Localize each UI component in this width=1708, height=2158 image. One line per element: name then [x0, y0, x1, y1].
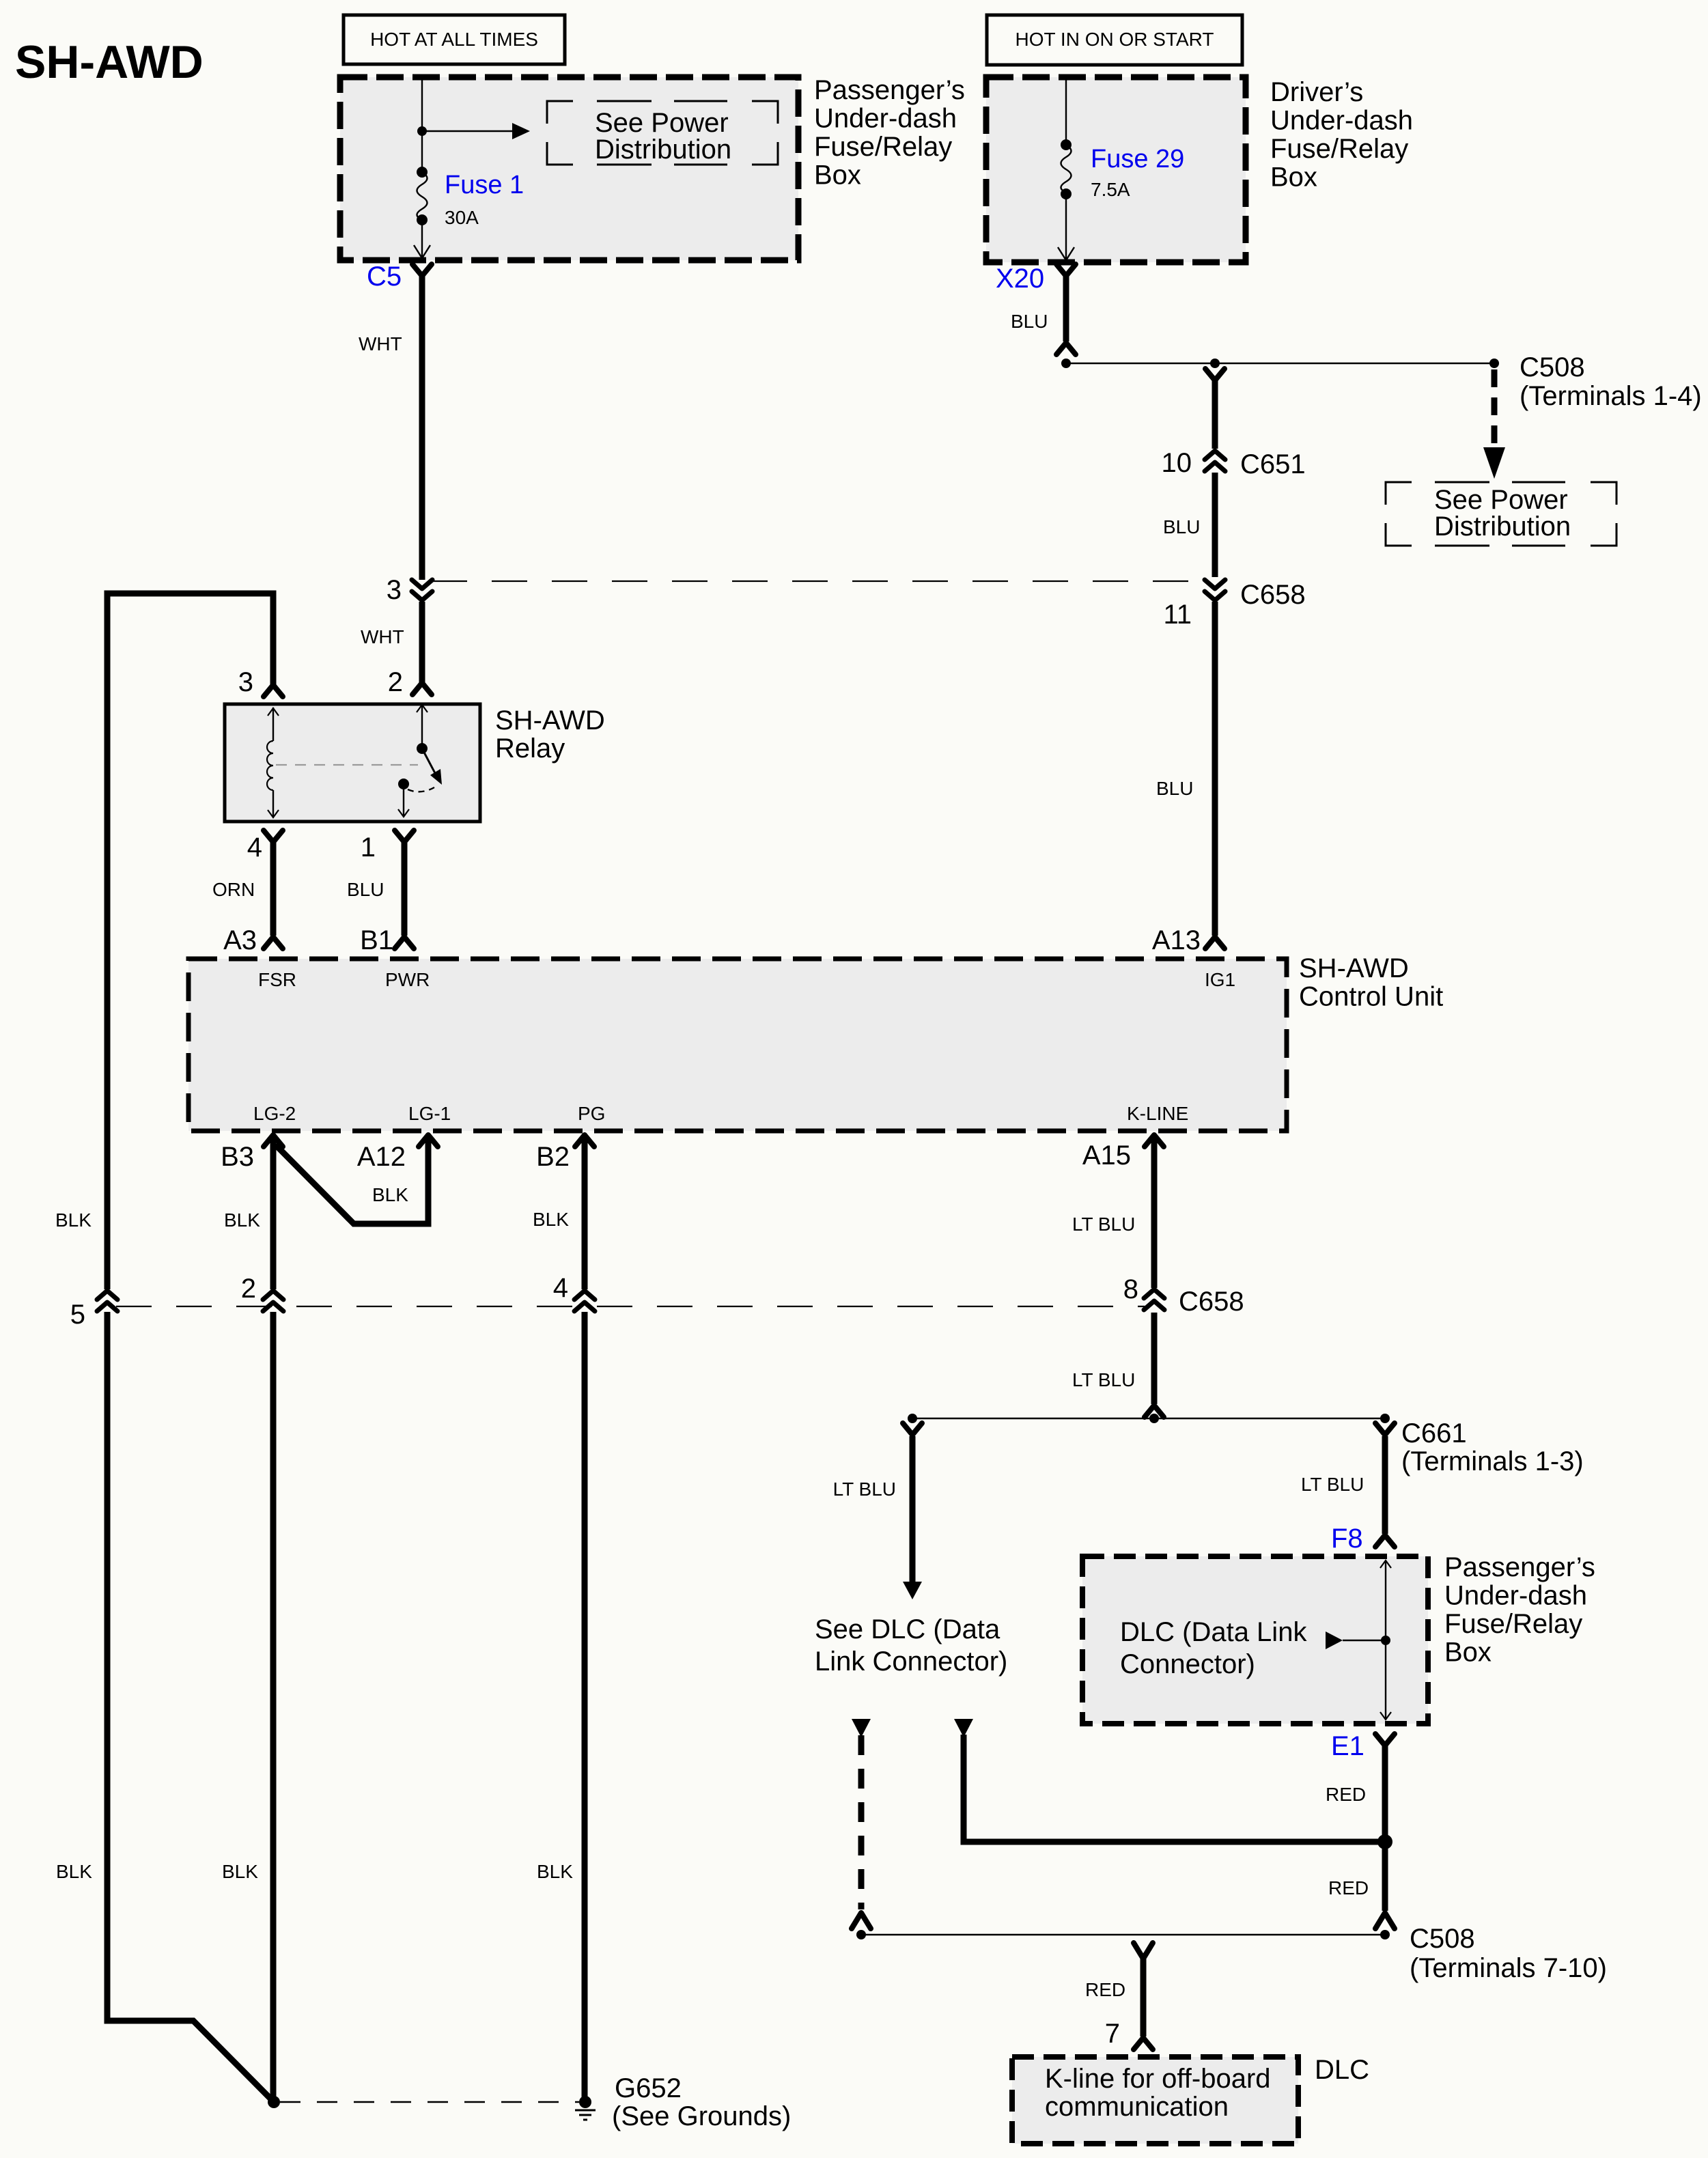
svg-text:4: 4: [553, 1273, 568, 1303]
hot at all times box: [344, 15, 565, 64]
svg-text:LG-2: LG-2: [253, 1103, 296, 1124]
arrow from DLC dashed branch: [852, 1719, 871, 1737]
svg-text:DLC (Data Link: DLC (Data Link: [1120, 1617, 1307, 1647]
svg-text:BLU: BLU: [1011, 311, 1048, 332]
wire WHT to relay pin 2: [419, 602, 425, 683]
svg-text:BLK: BLK: [222, 1861, 258, 1882]
wire fuse to C5 with arrow: [421, 220, 423, 257]
relay internal dashed link: [276, 764, 418, 766]
DLC k-line box: [1012, 2057, 1298, 2144]
node C508 row right: [1380, 1930, 1390, 1939]
svg-text:A12: A12: [357, 1142, 406, 1172]
connector relay pin 3: [264, 685, 283, 697]
hot in on or start box: [987, 15, 1242, 65]
svg-text:BLU: BLU: [347, 879, 384, 900]
svg-text:Fuse/Relay: Fuse/Relay: [1444, 1609, 1582, 1639]
connector relay pin 2: [412, 683, 432, 695]
wire LT BLU A15 down: [1151, 1136, 1158, 1288]
wire arrow to see power distribution: [422, 130, 512, 132]
svg-text:SH-AWD: SH-AWD: [495, 705, 605, 735]
svg-text:FSR: FSR: [258, 969, 296, 990]
svg-text:See Power: See Power: [1434, 485, 1568, 515]
wire RED pin 7: [1140, 1959, 1147, 2036]
svg-text:8: 8: [1123, 1274, 1138, 1304]
connector fork left branch: [903, 1423, 922, 1435]
svg-text:BLK: BLK: [372, 1184, 408, 1205]
wire BLK B3 lower: [270, 1312, 277, 2102]
svg-text:Box: Box: [1444, 1638, 1492, 1668]
svg-text:BLK: BLK: [224, 1209, 260, 1231]
connector fork below mid node: [1205, 369, 1224, 380]
relay switch moving contact: [422, 748, 436, 774]
svg-text:4: 4: [247, 832, 262, 863]
svg-text:Under-dash: Under-dash: [1444, 1581, 1587, 1611]
ground symbol G652: [575, 2110, 596, 2120]
wire LT BLU right branch: [1382, 1436, 1388, 1534]
svg-text:Relay: Relay: [495, 733, 565, 763]
svg-text:communication: communication: [1045, 2092, 1229, 2122]
connector C658 pin 3: [412, 580, 432, 600]
connector relay pin 4: [264, 830, 283, 842]
node k-line mid: [1149, 1414, 1159, 1423]
svg-text:X20: X20: [996, 264, 1044, 294]
svg-text:PG: PG: [578, 1103, 605, 1124]
svg-text:BLK: BLK: [56, 1861, 92, 1882]
wire thin k-line junction row: [912, 1418, 1385, 1419]
svg-text:(Terminals 7-10): (Terminals 7-10): [1410, 1953, 1607, 1983]
wire LT BLU below C658: [1151, 1313, 1158, 1404]
fuse F29 bottom node: [1061, 188, 1072, 199]
svg-text:7.5A: 7.5A: [1091, 179, 1130, 200]
wire dashed arrow to power distribution: [1492, 369, 1498, 447]
svg-text:(Terminals 1-3): (Terminals 1-3): [1401, 1446, 1584, 1476]
svg-text:Distribution: Distribution: [1434, 512, 1571, 542]
wire ORN pin4 to A3: [270, 842, 277, 936]
connector C651 pin 10: [1205, 451, 1225, 471]
connector fork right branch: [1375, 1423, 1395, 1435]
connector X20: [1056, 264, 1076, 276]
wire BLK B3 down: [270, 1136, 277, 1289]
svg-text:WHT: WHT: [359, 333, 402, 354]
driver under-dash fuse/relay box: [986, 77, 1246, 262]
wire thin C508 row: [861, 1934, 1385, 1935]
relay switch contact node: [398, 779, 409, 789]
wire inside driver box: [1065, 77, 1067, 145]
svg-text:WHT: WHT: [361, 626, 404, 647]
svg-text:Connector): Connector): [1120, 1649, 1255, 1679]
fuse F1 top node: [417, 167, 428, 178]
svg-text:B1: B1: [360, 925, 393, 955]
svg-text:DLC: DLC: [1315, 2055, 1369, 2085]
wire WHT C5 down: [419, 276, 425, 580]
svg-text:Fuse/Relay: Fuse/Relay: [814, 132, 952, 162]
connector fork dashed branch: [852, 1913, 871, 1929]
svg-text:LT BLU: LT BLU: [1301, 1474, 1364, 1495]
svg-text:BLU: BLU: [1156, 778, 1193, 799]
connector C658 pin 5: [97, 1291, 117, 1311]
svg-text:C658: C658: [1179, 1287, 1244, 1317]
arrow from DLC solid branch: [954, 1719, 973, 1737]
wire LT BLU left branch: [910, 1436, 916, 1583]
node X20 branch: [1061, 359, 1071, 368]
node RED junction: [1377, 1834, 1392, 1849]
fuse F1 bottom node: [417, 214, 428, 225]
svg-text:(See Grounds): (See Grounds): [612, 2101, 791, 2131]
wire BLU down: [1212, 381, 1218, 449]
wire dashed connector line C658: [432, 580, 1205, 582]
wire BLK left column lower: [107, 1312, 274, 2102]
svg-text:BLK: BLK: [55, 1209, 92, 1231]
svg-text:SH-AWD: SH-AWD: [1299, 953, 1409, 983]
svg-text:SH-AWD: SH-AWD: [15, 36, 204, 88]
DLC internal pointer: [1343, 1640, 1386, 1641]
wire inside passenger box: [421, 77, 423, 172]
svg-text:A13: A13: [1152, 925, 1201, 955]
svg-text:K-line for off-board: K-line for off-board: [1045, 2064, 1271, 2094]
svg-text:PWR: PWR: [385, 969, 430, 990]
fuse F29 top node: [1061, 139, 1072, 150]
wire BLK B2 lower: [582, 1312, 588, 2102]
connector fork to junction row: [1056, 343, 1076, 354]
svg-text:2: 2: [241, 1274, 256, 1304]
relay coil: [272, 707, 274, 741]
svg-text:Passenger’s: Passenger’s: [1444, 1552, 1595, 1582]
relay switch dashed throw arc: [408, 787, 434, 791]
svg-text:LT BLU: LT BLU: [833, 1479, 896, 1500]
connector fork RED to C508: [1375, 1913, 1395, 1929]
svg-text:RED: RED: [1085, 1979, 1125, 2000]
svg-text:Under-dash: Under-dash: [814, 104, 957, 134]
fuse F29 element: [1061, 145, 1072, 193]
svg-text:7: 7: [1105, 2019, 1120, 2049]
svg-text:3: 3: [238, 667, 253, 697]
wire RED E1 down: [1382, 1746, 1388, 1911]
node k-line right: [1380, 1414, 1390, 1423]
svg-text:LG-1: LG-1: [408, 1103, 451, 1124]
SH-AWD control unit box: [188, 959, 1287, 1131]
svg-text:Fuse/Relay: Fuse/Relay: [1270, 134, 1408, 164]
connector C658 pin 8: [1144, 1289, 1164, 1310]
svg-text:LT BLU: LT BLU: [1072, 1369, 1135, 1390]
wire BLU down to A13: [1212, 602, 1218, 936]
DLC passenger fuse box: [1082, 1556, 1428, 1724]
svg-text:C651: C651: [1240, 449, 1306, 479]
svg-text:Box: Box: [814, 160, 861, 191]
wire dashed from DLC: [858, 1735, 865, 1909]
wire BLK A12 joins B3: [275, 1136, 428, 1224]
node ground junction left: [268, 2096, 280, 2108]
svg-text:IG1: IG1: [1205, 969, 1235, 990]
svg-text:(Terminals 1-4): (Terminals 1-4): [1520, 381, 1702, 411]
connector fork pin7 top: [1134, 1943, 1153, 1959]
svg-text:RED: RED: [1326, 1784, 1366, 1805]
svg-text:C508: C508: [1410, 1924, 1475, 1954]
connector C5: [412, 264, 432, 276]
svg-text:K-LINE: K-LINE: [1127, 1103, 1188, 1124]
svg-text:Distribution: Distribution: [595, 135, 731, 165]
svg-text:Passenger’s: Passenger’s: [814, 75, 965, 105]
svg-text:E1: E1: [1331, 1731, 1364, 1761]
svg-text:Control Unit: Control Unit: [1299, 982, 1443, 1012]
svg-text:Link Connector): Link Connector): [815, 1646, 1007, 1677]
svg-text:B3: B3: [221, 1142, 254, 1172]
wire fuse 29 to X20 with arrow: [1065, 194, 1067, 260]
svg-text:Driver’s: Driver’s: [1270, 77, 1363, 107]
svg-text:BLU: BLU: [1163, 516, 1200, 537]
svg-text:2: 2: [388, 667, 403, 697]
wire BLU X20 down: [1063, 276, 1069, 341]
svg-text:See DLC (Data: See DLC (Data: [815, 1614, 1000, 1644]
svg-text:C5: C5: [367, 262, 402, 292]
wire dashed connector line C658 row 2: [116, 1306, 1145, 1307]
fuse F1 element: [417, 172, 428, 220]
svg-text:Box: Box: [1270, 163, 1317, 193]
wire RED to DLC branch: [964, 1735, 1385, 1842]
svg-text:A15: A15: [1082, 1140, 1131, 1171]
arrow see DLC: [903, 1582, 922, 1599]
see power distribution bracket box 1: [547, 101, 778, 165]
svg-text:1: 1: [361, 832, 376, 863]
svg-text:BLK: BLK: [537, 1861, 573, 1882]
svg-text:10: 10: [1162, 448, 1192, 478]
wire thin branch row: [1066, 363, 1494, 364]
DLC internal arrow span: [1385, 1560, 1386, 1720]
DLC internal node: [1381, 1636, 1390, 1645]
svg-text:B2: B2: [536, 1142, 570, 1172]
relay switch to pin 1: [403, 784, 404, 817]
wire BLK B2 down: [582, 1136, 588, 1289]
svg-text:ORN: ORN: [212, 879, 255, 900]
connector C658 pin 4: [574, 1291, 595, 1311]
svg-text:RED: RED: [1328, 1877, 1369, 1898]
svg-text:See Power: See Power: [595, 108, 729, 138]
wire BLU down to C658: [1212, 473, 1218, 577]
node k-line left: [908, 1414, 917, 1423]
svg-text:LT BLU: LT BLU: [1072, 1214, 1135, 1235]
svg-text:G652: G652: [615, 2073, 682, 2103]
svg-text:C508: C508: [1520, 352, 1585, 382]
svg-text:30A: 30A: [445, 207, 479, 228]
node right branch: [1489, 359, 1499, 368]
node junction in passenger box: [417, 126, 427, 136]
wire BLU pin1 to B1: [402, 842, 408, 936]
svg-text:HOT AT ALL TIMES: HOT AT ALL TIMES: [370, 29, 538, 50]
node ground junction right: [579, 2096, 591, 2108]
connector relay pin 1: [395, 830, 414, 842]
wire relay pin 3 loop to left: [107, 593, 273, 1289]
svg-text:BLK: BLK: [533, 1209, 569, 1230]
connector fork to k-line junction row: [1145, 1405, 1164, 1417]
svg-text:A3: A3: [223, 925, 257, 955]
node mid branch: [1210, 359, 1220, 368]
node C508 row left: [856, 1930, 866, 1939]
relay switch common arm: [421, 704, 423, 748]
svg-text:Fuse 29: Fuse 29: [1091, 145, 1184, 173]
svg-text:F8: F8: [1331, 1524, 1363, 1554]
relay SH-AWD box: [225, 704, 480, 822]
svg-text:5: 5: [70, 1300, 85, 1330]
connector C658 pin 11: [1205, 580, 1225, 600]
passenger under-dash fuse/relay box: [340, 77, 798, 260]
svg-text:Fuse 1: Fuse 1: [445, 171, 524, 199]
see power distribution bracket box 2: [1386, 482, 1616, 546]
svg-text:HOT IN ON OR START: HOT IN ON OR START: [1016, 29, 1214, 50]
svg-text:C658: C658: [1240, 580, 1306, 610]
svg-text:11: 11: [1163, 600, 1192, 630]
wire dashed ground link: [280, 2101, 579, 2103]
svg-text:3: 3: [387, 575, 402, 605]
connector C658 pin 2: [263, 1291, 283, 1311]
svg-text:Under-dash: Under-dash: [1270, 106, 1413, 136]
svg-text:C661: C661: [1401, 1418, 1467, 1448]
